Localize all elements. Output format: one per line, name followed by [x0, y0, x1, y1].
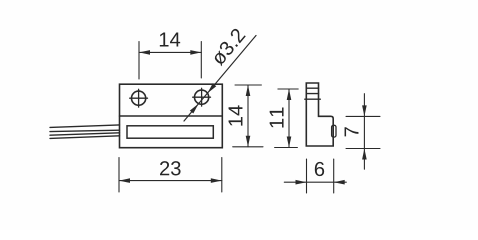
dimension 14 (body height) extension lines — [233, 85, 263, 147]
front view divider line — [120, 115, 223, 117]
dimension 23 (body width) extension lines — [119, 158, 222, 193]
left mounting hole circle with crosshair — [130, 89, 148, 107]
front view body outline — [120, 84, 223, 148]
dimension 7 dimension line with outside arrows — [362, 94, 367, 170]
front view recess inner rectangle — [127, 126, 213, 138]
dimension 7 extension lines — [346, 116, 380, 148]
diameter leader upper arrow — [207, 83, 216, 93]
dimension text 6 — [315, 162, 324, 176]
dimension 23 (body width) dimension line with arrows — [119, 178, 222, 183]
right mounting hole circle with crosshair — [193, 88, 211, 106]
diameter leader lower arrow — [190, 104, 199, 114]
side view outline — [306, 83, 333, 146]
diameter leader line for hole — [184, 36, 256, 122]
lead wires (two wires, four outline strokes) — [50, 125, 120, 138]
dimension text 14 (hole spacing) — [160, 33, 180, 47]
dimension text 14 (body height) — [229, 105, 243, 125]
dimension 6 extension lines — [307, 159, 334, 193]
dimension 6 dimension line with outside arrows — [284, 180, 346, 185]
dimension text 23 — [160, 161, 181, 175]
dimension text diameter 3.2 — [210, 27, 246, 66]
dimension 14 (hole spacing) dimension line with arrows — [139, 50, 201, 55]
side view clip bump — [332, 125, 336, 137]
dimension text 11 — [270, 108, 284, 128]
dimension text 7 — [345, 127, 359, 136]
dimension 11 extension lines — [275, 89, 299, 148]
dimension 14 (body height) dimension line with arrows — [246, 85, 251, 147]
dimension 14 (hole spacing) extension lines — [139, 42, 201, 80]
side view nipple rib lines — [305, 88, 321, 99]
dimension 11 dimension line with arrows — [287, 89, 292, 148]
